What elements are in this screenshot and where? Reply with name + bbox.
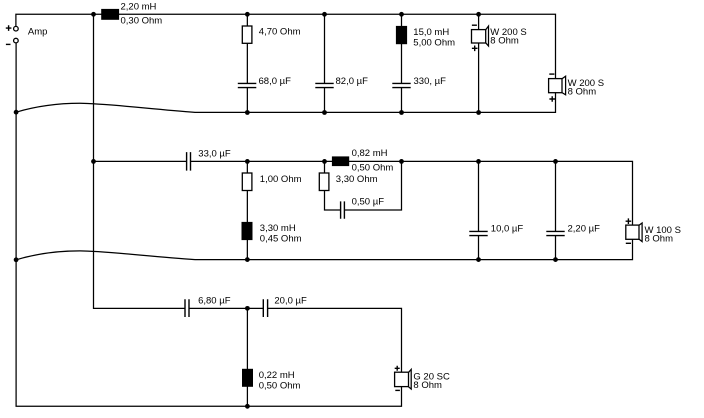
junction bottom rail <box>245 306 250 311</box>
junction mid rail branch 3 <box>476 159 481 164</box>
junction mid rail branch 1 <box>245 159 250 164</box>
junction bottom return <box>245 404 250 409</box>
amp - terminal <box>14 38 19 43</box>
inductor 15,0 mH 5,00 Ohm <box>396 26 455 49</box>
junction mid return left at amp rail <box>14 257 19 262</box>
wire mid rail main segment to W100S <box>191 161 633 225</box>
svg-text:2,20 mH: 2,20 mH <box>121 2 157 13</box>
svg-text:8 Ohm: 8 Ohm <box>413 380 442 391</box>
amp + polarity sign <box>6 25 12 31</box>
junction mid rail feeder <box>91 159 96 164</box>
junction mid return branch 4 <box>553 257 558 262</box>
resistor 1,00 Ohm <box>242 173 301 191</box>
wire bottom rail right segment to G20SC <box>268 308 402 372</box>
wire top return rail from speaker 2 bottom, curved to amp - rail <box>16 93 555 113</box>
wire bottom rail mid segment <box>189 307 263 309</box>
junction top return speaker 1 <box>476 110 481 115</box>
wire mid branch 2 with RC leg <box>325 161 402 210</box>
svg-text:6,80 µF: 6,80 µF <box>198 296 231 307</box>
svg-text:82,0 µF: 82,0 µF <box>336 76 369 87</box>
capacitor 68,0 uF <box>238 76 291 88</box>
inductor 0,22 mH 0,50 Ohm <box>242 369 301 392</box>
wire feeder vertical x=93.5 to bottom section rail <box>94 14 186 308</box>
svg-text:0,50 Ohm: 0,50 Ohm <box>352 163 394 174</box>
svg-text:20,0 µF: 20,0 µF <box>274 296 307 307</box>
junction mid rail branch 2 right <box>399 159 404 164</box>
svg-text:33,0 µF: 33,0 µF <box>198 149 231 160</box>
wire mid rail left segment <box>94 160 187 162</box>
wire speaker 1 feed <box>478 14 480 112</box>
wire mid branch 1 <box>246 161 248 259</box>
svg-text:68,0 µF: 68,0 µF <box>259 76 292 87</box>
svg-text:15,0 mH: 15,0 mH <box>413 27 449 38</box>
junction top rail feeder <box>91 12 96 17</box>
svg-text:330, µF: 330, µF <box>414 76 447 87</box>
wire branch 1 top section <box>246 14 248 112</box>
svg-text:0,22 mH: 0,22 mH <box>259 370 295 381</box>
svg-text:Amp: Amp <box>28 27 48 38</box>
wire W100S bottom and mid return rail curved to amp - rail <box>16 239 632 259</box>
svg-text:8 Ohm: 8 Ohm <box>568 86 597 97</box>
wire branch 3 top section <box>401 14 403 112</box>
wire mid branch 3 <box>478 161 480 259</box>
svg-text:0,82 mH: 0,82 mH <box>352 148 388 159</box>
svg-text:3,30 mH: 3,30 mH <box>260 223 296 234</box>
wire bottom branch inductor leg <box>246 308 248 406</box>
speaker G 20 SC <box>395 366 450 391</box>
resistor 3,30 Ohm <box>319 173 377 191</box>
inductor 2,20 mH 0,30 Ohm <box>101 2 162 27</box>
capacitor 33,0 uF <box>187 149 231 171</box>
capacitor 0,50 uF <box>341 197 385 219</box>
svg-text:0,45 Ohm: 0,45 Ohm <box>260 234 302 245</box>
junction top rail branch 3 <box>399 12 404 17</box>
speaker W 100 S <box>626 218 681 244</box>
capacitor 10,0 uF <box>469 224 523 236</box>
junction mid return branch 1 <box>245 257 250 262</box>
junction mid return branch 3 <box>476 257 481 262</box>
junction top rail branch 2 <box>322 12 327 17</box>
svg-text:0,30 Ohm: 0,30 Ohm <box>121 16 163 27</box>
capacitor 2,20 uF <box>546 224 600 236</box>
wire amp - left rail down and bottom return to G20SC <box>16 43 401 406</box>
junction top return branch 2 <box>322 110 327 115</box>
inductor 0,82 mH 0,50 Ohm <box>332 148 394 174</box>
junction top rail branch 1 <box>245 12 250 17</box>
speaker W 200 S (lower right) <box>549 74 604 102</box>
svg-text:2,20 µF: 2,20 µF <box>568 224 601 235</box>
svg-text:4,70 Ohm: 4,70 Ohm <box>259 27 301 38</box>
resistor 4,70 Ohm <box>242 26 300 43</box>
svg-text:10,0 µF: 10,0 µF <box>491 224 524 235</box>
svg-text:0,50 Ohm: 0,50 Ohm <box>259 381 301 392</box>
svg-text:8 Ohm: 8 Ohm <box>490 36 519 47</box>
capacitor 82,0 uF <box>315 76 368 88</box>
svg-text:0,50 µF: 0,50 µF <box>352 197 385 208</box>
junction top return branch 1 <box>245 110 250 115</box>
capacitor 20,0 uF <box>263 296 307 318</box>
svg-text:3,30 Ohm: 3,30 Ohm <box>336 174 378 185</box>
junction mid rail branch 2 left <box>322 159 327 164</box>
junction top return left at amp rail <box>14 110 19 115</box>
junction top rail speaker 1 <box>476 12 481 17</box>
svg-text:1,00 Ohm: 1,00 Ohm <box>260 174 302 185</box>
inductor 3,30 mH 0,45 Ohm <box>242 222 302 245</box>
speaker W 200 S (upper) <box>472 25 527 51</box>
capacitor 330, uF <box>392 76 446 88</box>
svg-text:8 Ohm: 8 Ohm <box>645 233 674 244</box>
wire mid branch 4 <box>555 161 557 259</box>
wire top rail from + terminal to right end, down to speaker 2 <box>16 14 556 78</box>
amp - polarity sign <box>6 43 11 45</box>
wire branch 2 top section <box>324 14 326 112</box>
svg-text:5,00 Ohm: 5,00 Ohm <box>413 38 455 49</box>
junction mid rail branch 4 <box>553 159 558 164</box>
junction top return branch 3 <box>399 110 404 115</box>
amp + terminal <box>14 26 19 31</box>
capacitor 6,80 uF <box>185 296 231 318</box>
